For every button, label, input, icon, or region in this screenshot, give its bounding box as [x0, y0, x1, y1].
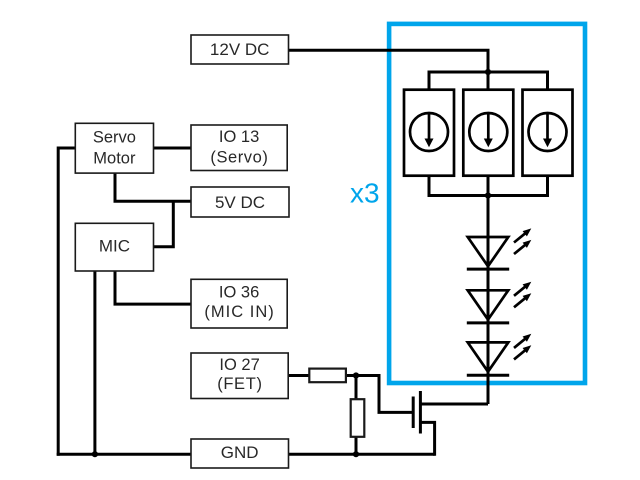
node: gate node — [353, 372, 359, 378]
wire: IO27 to R1 — [288, 374, 312, 377]
LED D1 — [467, 237, 509, 269]
wire: servo motor to IO13 — [154, 147, 192, 150]
current source CS3 — [523, 90, 573, 176]
box: 12V DC — [191, 35, 289, 64]
node: MIC-GND junction — [92, 451, 98, 457]
wire: Q1 source to GND rail — [420, 422, 434, 455]
LED D2 — [467, 290, 509, 323]
svg-text:(FET): (FET) — [217, 375, 262, 393]
wire: left rail down to GND — [57, 147, 60, 456]
LED D2 light arrows — [514, 282, 531, 308]
wire: LED string vertical — [487, 196, 490, 405]
current source CS2 — [463, 90, 513, 176]
transistor Q1 gate bar — [412, 397, 415, 429]
LED D3 — [467, 342, 509, 375]
LED D3 light arrows — [514, 334, 531, 360]
wire: CS2 bottom to bus — [487, 175, 490, 196]
wire: gate node down through R2 to GND — [355, 376, 358, 455]
svg-text:IO 27: IO 27 — [219, 356, 259, 374]
box: 5V DC — [191, 187, 289, 217]
LED D1 light arrows — [514, 228, 531, 254]
resistor R2 (pull-down) — [351, 399, 365, 437]
wire: servo motor bottom to 5V DC — [115, 172, 192, 201]
wire: LED cathode to FET drain — [420, 403, 488, 406]
node: R2-GND junction — [353, 451, 359, 457]
box: IO 27 (FET) — [191, 353, 288, 399]
svg-text:Motor: Motor — [93, 149, 136, 167]
LED driver group frame (cyan) — [389, 24, 585, 383]
node: 12V junction — [485, 69, 491, 75]
wire: GND rail — [57, 453, 435, 456]
resistor R1 (series gate resistor) — [309, 369, 346, 383]
transistor Q1 channel bar — [419, 391, 422, 434]
node: LED feed junction — [485, 192, 491, 198]
svg-text:IO 13: IO 13 — [219, 128, 259, 146]
svg-text:(Servo): (Servo) — [210, 149, 268, 167]
wire: R1 to gate node to Q1 gate — [344, 376, 413, 413]
svg-text:x3: x3 — [350, 178, 380, 209]
box: IO 13 (Servo) — [191, 125, 287, 171]
svg-text:MIC: MIC — [99, 237, 130, 256]
svg-text:(MIC IN): (MIC IN) — [204, 303, 274, 321]
box: Servo Motor — [75, 123, 153, 173]
wire: current-source top bus — [429, 72, 548, 91]
wire: middle drop to CS2 — [487, 72, 490, 91]
wire: MIC to IO36 — [115, 271, 192, 304]
box: IO 36 (MIC IN) — [191, 279, 287, 328]
svg-text:Servo: Servo — [93, 128, 136, 146]
wire: servo motor to left rail — [58, 147, 75, 150]
wire: 12V DC to current-source bus — [289, 50, 489, 73]
box: GND — [191, 439, 289, 468]
svg-text:GND: GND — [221, 443, 259, 462]
svg-text:IO 36: IO 36 — [219, 283, 259, 301]
current source CS1 — [404, 90, 454, 176]
wire: MIC left leg to GND rail — [93, 271, 96, 454]
svg-text:5V DC: 5V DC — [215, 193, 265, 212]
wire: current-source bottom bus — [429, 175, 548, 196]
wire: 5V branch down to MIC — [153, 201, 173, 247]
box: MIC — [75, 223, 153, 271]
svg-text:12V DC: 12V DC — [210, 40, 270, 59]
